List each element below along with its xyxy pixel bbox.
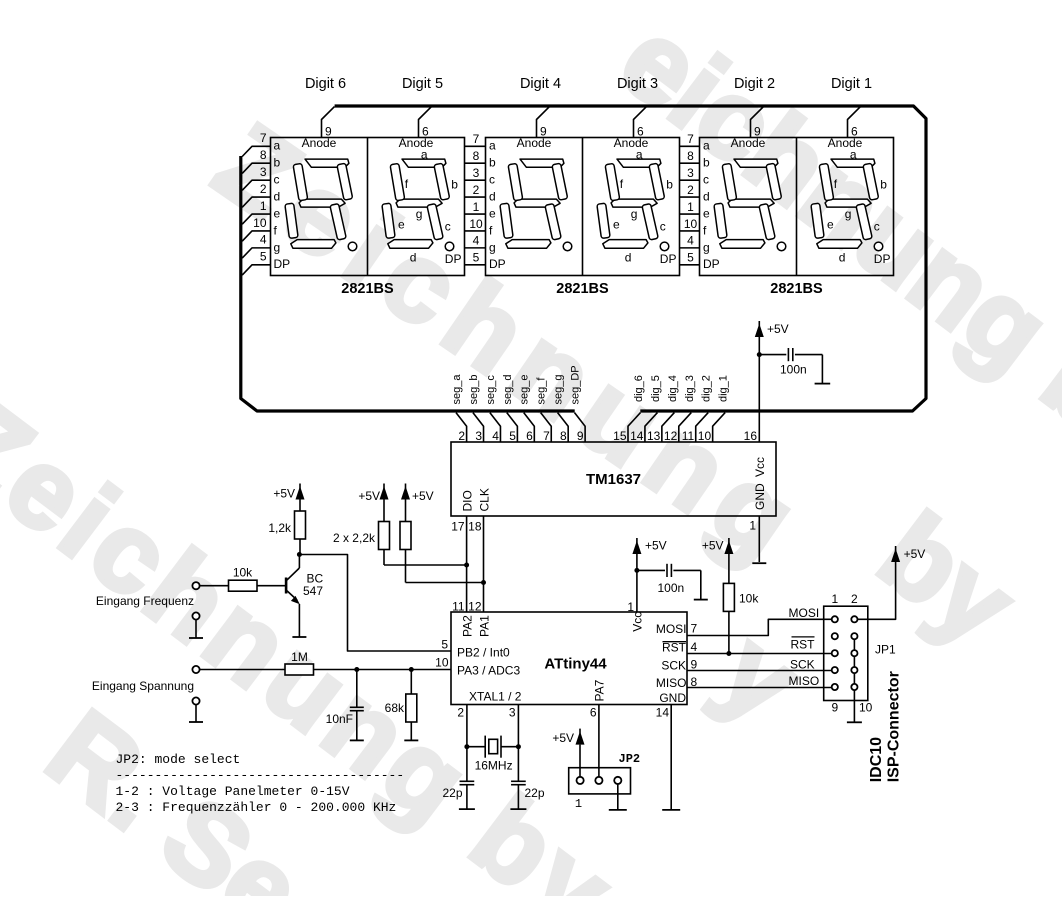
svg-text:12: 12 bbox=[664, 429, 678, 443]
resistor 1,2k bbox=[299, 500, 301, 512]
svg-text:6: 6 bbox=[526, 429, 533, 443]
svg-text:ATtiny44: ATtiny44 bbox=[544, 656, 607, 673]
svg-text:15: 15 bbox=[613, 429, 627, 443]
svg-text:4: 4 bbox=[687, 234, 694, 248]
svg-text:b: b bbox=[274, 156, 281, 170]
pin 12 dig_3 of TM1637 bbox=[679, 413, 692, 442]
7-segment digit (cell Digit 6) bbox=[291, 159, 349, 248]
svg-text:5: 5 bbox=[509, 429, 516, 443]
svg-text:+5V: +5V bbox=[412, 489, 434, 503]
svg-text:+5V: +5V bbox=[904, 547, 926, 561]
svg-text:5: 5 bbox=[473, 251, 480, 265]
pin 2 seg_a of TM1637 bbox=[456, 413, 467, 442]
resistor 2,2k #2 bbox=[405, 500, 407, 522]
capacitor 100n (display) bbox=[759, 354, 786, 356]
note JP2 mode select text bbox=[116, 752, 405, 815]
pin 10 dig_1 of TM1637 bbox=[713, 413, 726, 442]
wire 2,2k#2 to CLK bbox=[406, 582, 484, 584]
pin 6 seg_e of TM1637 bbox=[524, 413, 535, 442]
terminal Eingang Frequenz signal bbox=[192, 582, 199, 589]
svg-text:b: b bbox=[880, 178, 887, 192]
svg-text:CLK: CLK bbox=[478, 488, 492, 511]
svg-text:d: d bbox=[839, 251, 846, 265]
wire +5V to TM1637 Vcc pin 16 bbox=[758, 337, 760, 442]
svg-text:TM1637: TM1637 bbox=[586, 471, 641, 488]
capacitor 22p #2 bbox=[517, 747, 519, 782]
wire JP2 pin3 to ground bbox=[617, 784, 619, 810]
svg-text:seg_g: seg_g bbox=[553, 375, 565, 405]
pin 14 dig_5 of TM1637 bbox=[645, 413, 658, 442]
svg-text:Anode: Anode bbox=[614, 136, 649, 150]
svg-text:22p: 22p bbox=[442, 786, 462, 800]
capacitor 100n (ATtiny44) bbox=[637, 569, 665, 571]
svg-text:10: 10 bbox=[684, 217, 698, 231]
svg-text:4: 4 bbox=[260, 233, 267, 247]
ground (emitter) bbox=[292, 636, 306, 638]
svg-text:DP: DP bbox=[445, 252, 462, 266]
svg-text:5: 5 bbox=[441, 638, 448, 652]
wire 10k to base bbox=[257, 585, 286, 587]
ground (10nF) bbox=[350, 739, 364, 741]
svg-text:17: 17 bbox=[451, 520, 465, 534]
ground (22p #1) bbox=[459, 808, 475, 810]
pin 14 GND of ATtiny44 bbox=[670, 705, 672, 810]
svg-text:Eingang Spannung: Eingang Spannung bbox=[92, 679, 194, 693]
svg-text:6: 6 bbox=[590, 706, 597, 720]
svg-text:seg_b: seg_b bbox=[468, 375, 480, 405]
crystal 16MHz bbox=[467, 746, 485, 748]
svg-text:Digit 2: Digit 2 bbox=[734, 76, 775, 92]
IC TM1637 body bbox=[451, 442, 776, 516]
terminal Eingang Spannung signal bbox=[192, 666, 199, 673]
svg-text:JP2: mode select: JP2: mode select bbox=[116, 752, 241, 767]
svg-text:DIO: DIO bbox=[461, 490, 475, 511]
svg-text:9: 9 bbox=[577, 429, 584, 443]
wire segment bus (left side + bottom) bbox=[241, 156, 575, 411]
svg-text:100n: 100n bbox=[658, 581, 685, 595]
svg-text:Vcc: Vcc bbox=[631, 612, 645, 632]
svg-text:c: c bbox=[489, 173, 495, 187]
svg-text:5: 5 bbox=[260, 250, 267, 264]
svg-text:g: g bbox=[489, 240, 496, 254]
svg-text:3: 3 bbox=[260, 165, 267, 179]
terminal Eingang Spannung ground bbox=[192, 697, 199, 704]
svg-text:3: 3 bbox=[473, 166, 480, 180]
wire 1M to PA3/ADC3 pin 10 bbox=[314, 669, 451, 671]
svg-text:RST: RST bbox=[662, 641, 687, 655]
svg-text:DP: DP bbox=[703, 257, 720, 271]
svg-text:10k: 10k bbox=[739, 592, 759, 606]
svg-text:1: 1 bbox=[749, 519, 756, 533]
power +5V (JP2 pin1) bbox=[576, 729, 585, 745]
svg-text:18: 18 bbox=[468, 520, 482, 534]
svg-text:1,2k: 1,2k bbox=[268, 521, 292, 535]
junction XTAL pin2 node bbox=[464, 744, 469, 749]
svg-text:g: g bbox=[631, 207, 638, 221]
svg-text:1-2 : Voltage Panelmeter 0-15V: 1-2 : Voltage Panelmeter 0-15V bbox=[116, 784, 350, 799]
power +5V (ISP) bbox=[891, 546, 900, 562]
svg-text:c: c bbox=[445, 220, 451, 234]
svg-text:2-3 : Frequenzzähler 0 - 200.0: 2-3 : Frequenzzähler 0 - 200.000 KHz bbox=[116, 800, 397, 815]
module 2 pin ladder (pins 7,8,3,2,1,10,4,5) bbox=[465, 132, 506, 271]
svg-text:22p: 22p bbox=[525, 786, 545, 800]
wire anode pin 9 to digit bus bbox=[322, 107, 335, 138]
svg-text:Digit 6: Digit 6 bbox=[305, 76, 346, 92]
svg-text:+5V: +5V bbox=[767, 322, 789, 336]
ground (ATtiny 100n) bbox=[694, 599, 708, 601]
segment letters (Digit 3) bbox=[613, 148, 676, 267]
svg-text:4: 4 bbox=[691, 640, 698, 654]
IC ATtiny44 body bbox=[451, 612, 687, 705]
svg-text:PA7: PA7 bbox=[593, 679, 607, 701]
svg-text:Anode: Anode bbox=[302, 136, 337, 150]
junction display Vcc node bbox=[757, 352, 762, 357]
junction ATtiny Vcc node bbox=[634, 568, 639, 573]
svg-text:seg_d: seg_d bbox=[502, 375, 514, 405]
svg-text:JP1: JP1 bbox=[875, 643, 896, 657]
svg-text:Eingang Frequenz: Eingang Frequenz bbox=[96, 594, 194, 608]
junction 10nF node bbox=[354, 667, 359, 672]
wire input to 1M bbox=[200, 669, 285, 671]
svg-text:16: 16 bbox=[744, 429, 758, 443]
svg-text:10: 10 bbox=[859, 701, 873, 715]
svg-text:2821BS: 2821BS bbox=[556, 281, 609, 297]
svg-text:2: 2 bbox=[458, 429, 465, 443]
wire JP1 ground chain bbox=[853, 639, 855, 722]
svg-text:Digit 3: Digit 3 bbox=[617, 76, 658, 92]
junction DIO/2,2k bbox=[464, 563, 469, 568]
svg-text:2 x 2,2k: 2 x 2,2k bbox=[333, 531, 376, 545]
pin 7 seg_f of TM1637 bbox=[541, 413, 552, 442]
wire 2,2k#1 to DIO bbox=[384, 564, 467, 566]
pin 1 GND of TM1637 bbox=[758, 516, 760, 562]
svg-text:1: 1 bbox=[575, 797, 582, 811]
svg-text:9: 9 bbox=[831, 701, 838, 715]
junction 68k node bbox=[409, 667, 414, 672]
display module 2821BS #1 body bbox=[271, 138, 465, 276]
svg-text:ISP-Connector: ISP-Connector bbox=[886, 671, 903, 782]
capacitor 10nF bbox=[356, 670, 358, 708]
connector JP1 IDC10 body bbox=[824, 606, 868, 700]
svg-text:e: e bbox=[613, 217, 620, 231]
svg-text:9: 9 bbox=[691, 658, 698, 672]
segment letters (Digit 5) bbox=[398, 148, 461, 267]
svg-text:11: 11 bbox=[452, 600, 465, 614]
svg-text:10: 10 bbox=[698, 429, 712, 443]
svg-text:7: 7 bbox=[543, 429, 550, 443]
svg-text:XTAL1 / 2: XTAL1 / 2 bbox=[469, 690, 522, 704]
svg-text:seg_c: seg_c bbox=[485, 375, 497, 405]
svg-text:1M: 1M bbox=[291, 650, 308, 664]
junction RST/10k bbox=[726, 651, 731, 656]
svg-text:g: g bbox=[274, 240, 281, 254]
pin 13 dig_4 of TM1637 bbox=[662, 413, 675, 442]
connector JP2 body bbox=[569, 768, 631, 794]
7-segment digit (cell Digit 5) bbox=[388, 159, 446, 248]
svg-text:Digit 1: Digit 1 bbox=[831, 76, 872, 92]
pin 11 dig_2 of TM1637 bbox=[696, 413, 709, 442]
pin 17 DIO of TM1637 bbox=[466, 516, 468, 612]
svg-text:e: e bbox=[489, 206, 496, 220]
svg-text:Digit 5: Digit 5 bbox=[402, 76, 443, 92]
svg-text:12: 12 bbox=[468, 600, 482, 614]
svg-text:SCK: SCK bbox=[790, 657, 815, 671]
ground (22p #2) bbox=[510, 808, 526, 810]
wire anode pin 6 to digit bus bbox=[848, 107, 861, 138]
svg-text:------------------------------: ------------------------------------- bbox=[116, 768, 405, 783]
resistor 10k (RST) bbox=[728, 554, 730, 583]
wire anode pin 6 to digit bus bbox=[634, 107, 647, 138]
svg-text:e: e bbox=[398, 217, 405, 231]
svg-text:1: 1 bbox=[831, 592, 838, 606]
svg-text:3: 3 bbox=[687, 166, 694, 180]
svg-text:100n: 100n bbox=[780, 363, 807, 377]
pin 15 dig_6 of TM1637 bbox=[628, 413, 641, 442]
power +5V display supply bbox=[755, 321, 764, 337]
power +5V (10k RST pullup) bbox=[724, 538, 733, 554]
svg-text:dig_3: dig_3 bbox=[684, 375, 696, 402]
pin 1 Vcc of ATtiny44 bbox=[636, 570, 638, 612]
svg-text:Anode: Anode bbox=[828, 136, 863, 150]
svg-text:a: a bbox=[274, 139, 281, 153]
svg-text:b: b bbox=[451, 178, 458, 192]
svg-text:+5V: +5V bbox=[273, 487, 295, 501]
svg-text:b: b bbox=[489, 156, 496, 170]
display module 2821BS #3 body bbox=[700, 138, 894, 276]
ground (ATtiny GND) bbox=[662, 809, 680, 811]
wire input to 10k bbox=[200, 585, 229, 587]
svg-text:8: 8 bbox=[560, 429, 567, 443]
svg-text:8: 8 bbox=[473, 149, 480, 163]
svg-text:GND: GND bbox=[659, 691, 686, 705]
svg-text:MOSI: MOSI bbox=[789, 606, 820, 620]
junction CLK/2,2k bbox=[481, 580, 486, 585]
power +5V (ATtiny44 Vcc) bbox=[632, 538, 641, 554]
wire anode/digit bus (top + right side) bbox=[335, 106, 926, 411]
svg-text:Vcc: Vcc bbox=[753, 457, 767, 477]
svg-text:10k: 10k bbox=[233, 566, 253, 580]
svg-text:7: 7 bbox=[687, 132, 694, 146]
pin 3 seg_b of TM1637 bbox=[473, 413, 484, 442]
svg-text:g: g bbox=[416, 207, 423, 221]
junction XTAL pin3 node bbox=[516, 744, 521, 749]
7-segment digit (cell Digit 3) bbox=[603, 159, 661, 248]
module 3 pin ladder (pins 7,8,3,2,1,10,4,5) bbox=[680, 132, 720, 271]
pin 4 seg_c of TM1637 bbox=[490, 413, 501, 442]
svg-text:2: 2 bbox=[457, 706, 464, 720]
svg-text:d: d bbox=[489, 189, 496, 203]
wire MISO to ISP bbox=[687, 687, 832, 689]
JP1 pin circles right column bbox=[851, 616, 857, 690]
svg-text:10: 10 bbox=[435, 656, 449, 670]
pin 6 PA7 of ATtiny44 bbox=[598, 705, 600, 778]
svg-text:1: 1 bbox=[687, 200, 694, 214]
svg-text:SCK: SCK bbox=[661, 659, 686, 673]
svg-text:dig_5: dig_5 bbox=[650, 375, 662, 402]
svg-text:RST: RST bbox=[791, 638, 816, 652]
svg-text:GND: GND bbox=[753, 483, 767, 510]
svg-text:DP: DP bbox=[660, 252, 677, 266]
wire anode pin 9 to digit bus bbox=[751, 107, 764, 138]
ground (display 100n) bbox=[815, 383, 831, 385]
svg-text:PA2: PA2 bbox=[461, 615, 475, 637]
svg-text:1: 1 bbox=[260, 199, 267, 213]
svg-text:2821BS: 2821BS bbox=[341, 281, 394, 297]
svg-text:16MHz: 16MHz bbox=[475, 759, 513, 773]
resistor 1M bbox=[285, 664, 314, 675]
svg-text:c: c bbox=[274, 173, 280, 187]
resistor 2,2k #1 bbox=[383, 500, 385, 522]
svg-text:d: d bbox=[703, 189, 710, 203]
svg-text:d: d bbox=[274, 189, 281, 203]
power +5V (2x2,2k pullup right) bbox=[401, 484, 410, 500]
svg-text:seg_e: seg_e bbox=[519, 375, 531, 405]
svg-text:+5V: +5V bbox=[552, 731, 574, 745]
wire anode pin 6 to digit bus bbox=[419, 107, 432, 138]
svg-text:+5V: +5V bbox=[702, 539, 724, 553]
svg-text:7: 7 bbox=[691, 622, 698, 636]
wire anode pin 9 to digit bus bbox=[537, 107, 550, 138]
svg-text:8: 8 bbox=[687, 149, 694, 163]
svg-text:c: c bbox=[703, 173, 709, 187]
svg-text:Anode: Anode bbox=[517, 136, 552, 150]
svg-text:68k: 68k bbox=[385, 701, 405, 715]
svg-text:JP2: JP2 bbox=[619, 752, 641, 766]
svg-text:dig_4: dig_4 bbox=[667, 375, 679, 402]
svg-text:a: a bbox=[636, 148, 643, 162]
wire RST to ISP bbox=[687, 653, 832, 655]
svg-text:seg_a: seg_a bbox=[451, 374, 463, 405]
module 1 left pin ladder (pins 7,8,3,2,1,10,4,5 to segment bus) bbox=[242, 131, 290, 275]
svg-text:13: 13 bbox=[647, 429, 661, 443]
svg-text:MOSI: MOSI bbox=[656, 622, 687, 636]
svg-text:c: c bbox=[660, 220, 666, 234]
transistor Q1 BC547 bbox=[286, 555, 300, 638]
svg-text:dig_1: dig_1 bbox=[718, 375, 730, 402]
svg-text:PB2 / Int0: PB2 / Int0 bbox=[457, 646, 510, 660]
ground (JP2 pin3) bbox=[609, 809, 627, 811]
power +5V (1,2k collector load) bbox=[296, 484, 305, 500]
ground (JP1) bbox=[847, 721, 862, 723]
7-segment digit (cell Digit 4) bbox=[506, 159, 564, 248]
svg-text:PA1: PA1 bbox=[478, 615, 492, 637]
pin 18 CLK of TM1637 bbox=[483, 516, 485, 612]
svg-text:+5V: +5V bbox=[358, 489, 380, 503]
svg-text:dig_2: dig_2 bbox=[701, 375, 713, 402]
JP1 pin circles left column bbox=[832, 616, 838, 690]
capacitor 22p #1 bbox=[466, 747, 468, 782]
svg-text:2: 2 bbox=[260, 182, 267, 196]
svg-text:MISO: MISO bbox=[656, 676, 687, 690]
svg-text:e: e bbox=[827, 217, 834, 231]
svg-text:d: d bbox=[410, 251, 417, 265]
svg-text:3: 3 bbox=[509, 706, 516, 720]
svg-text:Anode: Anode bbox=[731, 136, 766, 150]
svg-text:DP: DP bbox=[489, 257, 506, 271]
svg-text:14: 14 bbox=[656, 706, 670, 720]
svg-text:b: b bbox=[703, 156, 710, 170]
svg-text:DP: DP bbox=[274, 257, 291, 271]
svg-text:a: a bbox=[703, 139, 710, 153]
svg-text:g: g bbox=[703, 240, 710, 254]
pin 9 seg_DP of TM1637 bbox=[575, 413, 586, 442]
svg-text:a: a bbox=[850, 148, 857, 162]
pin 2 XTAL of ATtiny44 bbox=[466, 705, 468, 747]
wire JP1 pin2 to +5V bbox=[858, 562, 896, 619]
svg-text:+5V: +5V bbox=[645, 539, 667, 553]
svg-text:547: 547 bbox=[303, 584, 323, 598]
svg-text:b: b bbox=[666, 178, 673, 192]
svg-text:a: a bbox=[489, 139, 496, 153]
ground (freq input) bbox=[189, 637, 203, 639]
svg-text:dig_6: dig_6 bbox=[633, 375, 645, 402]
resistor 10k (base) bbox=[229, 580, 258, 591]
svg-text:Anode: Anode bbox=[399, 136, 434, 150]
svg-text:10: 10 bbox=[253, 216, 267, 230]
svg-text:c: c bbox=[874, 220, 880, 234]
wire SCK to ISP bbox=[687, 670, 832, 672]
svg-text:4: 4 bbox=[492, 429, 499, 443]
svg-text:seg_f: seg_f bbox=[536, 377, 548, 405]
pin 8 seg_g of TM1637 bbox=[558, 413, 569, 442]
svg-text:IDC10: IDC10 bbox=[868, 737, 885, 782]
resistor 68k bbox=[410, 670, 412, 695]
svg-text:2821BS: 2821BS bbox=[770, 281, 823, 297]
svg-text:Digit 4: Digit 4 bbox=[520, 76, 561, 92]
svg-text:MISO: MISO bbox=[789, 674, 820, 688]
svg-text:2: 2 bbox=[687, 183, 694, 197]
svg-text:7: 7 bbox=[473, 132, 480, 146]
svg-text:a: a bbox=[421, 148, 428, 162]
ground (voltage input) bbox=[189, 721, 203, 723]
svg-text:7: 7 bbox=[260, 131, 267, 145]
power +5V (2x2,2k pullup left) bbox=[380, 484, 389, 500]
pin 3 XTAL of ATtiny44 bbox=[517, 705, 519, 747]
pin 5 seg_d of TM1637 bbox=[507, 413, 518, 442]
svg-text:3: 3 bbox=[475, 429, 482, 443]
svg-text:DP: DP bbox=[874, 252, 891, 266]
svg-text:14: 14 bbox=[630, 429, 644, 443]
terminal Eingang Frequenz ground bbox=[192, 612, 199, 619]
svg-text:5: 5 bbox=[687, 251, 694, 265]
segment letters (Digit 1) bbox=[827, 148, 890, 267]
display module 2821BS #2 body bbox=[486, 138, 680, 276]
svg-text:2: 2 bbox=[473, 183, 480, 197]
svg-text:1: 1 bbox=[473, 200, 480, 214]
svg-text:PA3 / ADC3: PA3 / ADC3 bbox=[457, 664, 520, 678]
svg-text:4: 4 bbox=[473, 234, 480, 248]
svg-text:seg_DP: seg_DP bbox=[570, 365, 582, 404]
svg-text:2: 2 bbox=[851, 592, 858, 606]
JP2 pin 2 bbox=[595, 777, 602, 784]
svg-text:e: e bbox=[703, 206, 710, 220]
junction collector node bbox=[297, 552, 302, 557]
JP2 pin 1 bbox=[577, 777, 584, 784]
ground (TM1637 GND) bbox=[752, 562, 766, 564]
7-segment digit (cell Digit 1) bbox=[817, 159, 875, 248]
ground (68k) bbox=[404, 739, 418, 741]
svg-text:10nF: 10nF bbox=[326, 712, 353, 726]
svg-text:d: d bbox=[625, 251, 632, 265]
svg-text:8: 8 bbox=[260, 148, 267, 162]
svg-text:11: 11 bbox=[682, 429, 695, 443]
svg-text:10: 10 bbox=[469, 217, 483, 231]
JP2 pin 3 bbox=[614, 777, 621, 784]
svg-text:e: e bbox=[274, 206, 281, 220]
wire collector node to PB2/Int0 pin 5 bbox=[299, 555, 451, 652]
7-segment digit (cell Digit 2) bbox=[720, 159, 778, 248]
svg-text:g: g bbox=[845, 207, 852, 221]
